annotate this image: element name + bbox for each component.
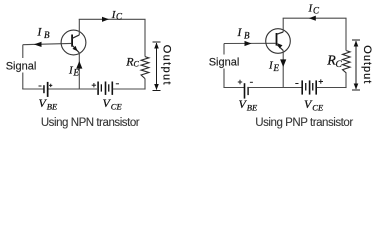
svg-text:Using PNP transistor: Using PNP transistor bbox=[255, 117, 353, 129]
transistor Q1 base bar bbox=[71, 35, 73, 47]
svg-text:BE: BE bbox=[247, 103, 258, 113]
transistor Q1 (NPN) circle bbox=[61, 30, 86, 55]
resistor R_C zigzag bbox=[343, 51, 351, 73]
svg-text:BE: BE bbox=[47, 102, 58, 112]
battery V_BE long bar bbox=[244, 83, 246, 98]
svg-text:Signal: Signal bbox=[209, 56, 240, 68]
wire: right vertical upper bbox=[144, 19, 146, 56]
wire: collector riser bbox=[282, 18, 284, 32]
battery V_BE short bar bbox=[247, 87, 248, 95]
wire: bottom horizontal (segment 3) bbox=[113, 88, 146, 90]
wire: right vertical lower bbox=[345, 73, 347, 88]
wire: emitter vertical bbox=[282, 51, 284, 88]
battery V_BE long bar bbox=[47, 82, 49, 97]
wire: bottom horizontal (segment 1) bbox=[223, 87, 244, 89]
svg-text:I: I bbox=[37, 27, 43, 39]
resistor R_C zigzag bbox=[141, 57, 149, 79]
wire: left vertical (signal branch) bbox=[223, 44, 225, 88]
wire: bottom horizontal (segment 2) bbox=[249, 87, 302, 89]
transistor Q2 collector diagonal bbox=[277, 32, 283, 34]
wire: emitter vertical bbox=[78, 53, 80, 89]
arrow I_C pointing right bbox=[102, 17, 109, 22]
battery V_BE: plus sign bbox=[238, 81, 242, 83]
svg-text:C: C bbox=[313, 6, 320, 16]
transistor Q1 collector diagonal bbox=[72, 35, 79, 38]
label Signal (white box interrupts wire) bbox=[209, 55, 240, 69]
wire: collector riser bbox=[78, 19, 80, 35]
wire: bottom horizontal (segment 1) bbox=[22, 88, 43, 90]
svg-text:E: E bbox=[73, 68, 80, 78]
arrow I_B pointing left bbox=[34, 42, 42, 47]
wire: right vertical upper bbox=[345, 18, 347, 50]
transistor Q1 emitter diagonal bbox=[72, 45, 79, 52]
arrow I_E pointing up bbox=[76, 61, 82, 69]
battery V_CE bars (tall-short-tall-short-tall) bbox=[97, 82, 99, 95]
label Signal (white box interrupts wire) bbox=[6, 58, 37, 73]
wire: right vertical lower bbox=[144, 79, 146, 90]
wire: left vertical (signal branch) bbox=[22, 45, 24, 89]
transistor Q2 (PNP) circle bbox=[266, 29, 291, 54]
svg-text:CE: CE bbox=[111, 102, 123, 112]
battery V_CE: plus sign bbox=[319, 81, 323, 83]
svg-text:B: B bbox=[244, 31, 250, 41]
transistor Q1 emitter arrow (NPN, outward) bbox=[73, 46, 78, 51]
svg-text:Using NPN transistor: Using NPN transistor bbox=[41, 117, 140, 129]
battery V_CE: plus sign bbox=[92, 84, 96, 86]
arrow I_C pointing left bbox=[309, 16, 316, 21]
battery V_BE: minus sign bbox=[250, 81, 253, 83]
svg-text:CE: CE bbox=[312, 103, 324, 113]
battery V_CE: minus sign bbox=[295, 83, 298, 85]
transistor Q2 emitter arrow (PNP, inward) bbox=[277, 43, 282, 48]
svg-text:C: C bbox=[336, 60, 343, 70]
transistor Q2 emitter diagonal bbox=[277, 45, 283, 51]
wire: top horizontal bbox=[79, 18, 146, 20]
arrow I_B pointing right bbox=[245, 41, 252, 46]
arrow I_E pointing down bbox=[280, 59, 286, 67]
battery V_BE: minus sign bbox=[39, 85, 42, 87]
output dimension line with arrows and end ticks bbox=[352, 39, 360, 41]
battery V_BE short bar bbox=[43, 85, 45, 93]
wire: bottom horizontal (segment 3) bbox=[317, 87, 347, 89]
wire: base horizontal bbox=[23, 43, 72, 44]
svg-text:C: C bbox=[116, 12, 123, 22]
svg-text:I: I bbox=[237, 27, 243, 39]
wire: bottom horizontal (segment 2) bbox=[49, 88, 98, 90]
output dimension line with arrows and end ticks bbox=[153, 41, 161, 43]
svg-text:B: B bbox=[44, 30, 50, 40]
wire: base horizontal bbox=[224, 42, 276, 44]
svg-text:E: E bbox=[273, 63, 280, 73]
wire: top horizontal bbox=[283, 17, 347, 19]
svg-text:Output: Output bbox=[361, 45, 373, 84]
svg-text:Signal: Signal bbox=[6, 61, 37, 73]
battery V_CE bars (tall-short-tall-short-tall) bbox=[301, 80, 303, 94]
transistor Q2 base bar bbox=[276, 33, 278, 46]
battery V_CE: minus sign bbox=[116, 83, 119, 85]
battery V_BE: plus sign bbox=[49, 84, 52, 86]
svg-text:C: C bbox=[134, 60, 140, 69]
svg-text:Output: Output bbox=[161, 45, 173, 86]
